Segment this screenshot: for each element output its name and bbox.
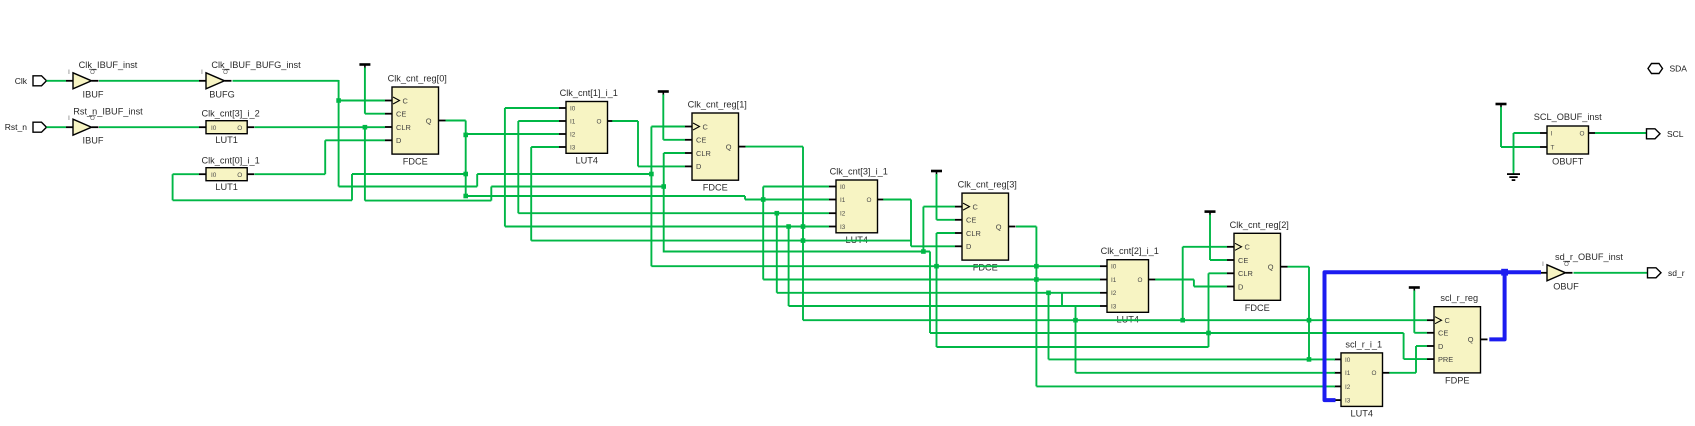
- svg-text:FDCE: FDCE: [973, 263, 998, 273]
- wire run y=306 to I3 of LUT4[2]: [789, 305, 1100, 307]
- wire Rst_n port to IBUF: [47, 126, 67, 128]
- wire Clk port to IBUF: [47, 80, 67, 82]
- node blue junction: [1501, 269, 1508, 276]
- node riser to C of reg2: [1180, 318, 1185, 323]
- svg-text:Rst_n_IBUF_inst: Rst_n_IBUF_inst: [73, 107, 143, 117]
- svg-text:C: C: [1245, 243, 1251, 252]
- buffer Clk_IBUF_BUFG_inst (BUFG): [199, 80, 206, 82]
- node Q0 to feedback run y=174: [463, 172, 468, 177]
- svg-text:sd_r_OBUF_inst: sd_r_OBUF_inst: [1555, 252, 1623, 262]
- wire run y=266.2 to I0 of LUT4[2]: [651, 265, 1100, 267]
- node clock to C of reg0: [336, 98, 341, 103]
- power vcc for scl_r_reg CE: [1409, 286, 1420, 289]
- svg-text:D: D: [1238, 282, 1243, 291]
- wire run y=333 to PRE of scl_r_reg: [930, 332, 1404, 334]
- power vcc for Clk_cnt_reg[3] CE: [931, 170, 942, 173]
- wire IBUF to BUFG: [99, 80, 199, 82]
- svg-text:FDCE: FDCE: [1245, 303, 1270, 313]
- wire run y=279.5 to I1 of LUT4[2]: [763, 279, 1100, 281]
- svg-text:SCL: SCL: [1667, 129, 1684, 139]
- svg-text:D: D: [966, 242, 971, 251]
- wire Q of reg3 to staircase: [1016, 226, 1036, 228]
- node Q0 branch y=196: [463, 194, 468, 199]
- wire feed I0 of LUT4[1]: [505, 107, 559, 109]
- svg-text:I2: I2: [840, 211, 846, 218]
- wire run y=359.4 to I0 of scl_r_i_1: [1049, 358, 1336, 360]
- svg-text:CLR: CLR: [696, 149, 711, 158]
- svg-text:Clk: Clk: [15, 76, 28, 86]
- svg-text:Q: Q: [996, 222, 1002, 231]
- svg-text:I0: I0: [1345, 357, 1351, 364]
- svg-text:I1: I1: [1345, 370, 1351, 377]
- node CLR branch: [363, 125, 368, 130]
- wire run y=226.5 to I3 of LUT4[3]: [505, 226, 829, 228]
- wire run y=386.4 to I2 of scl_r_i_1: [1036, 385, 1335, 387]
- wire clock run y=174: [477, 173, 651, 175]
- svg-text:I: I: [68, 116, 70, 122]
- power vcc for Clk_cnt_reg[2] CE: [1205, 210, 1216, 213]
- svg-text:D: D: [1438, 342, 1443, 351]
- svg-text:CE: CE: [396, 110, 406, 119]
- svg-text:O: O: [1580, 130, 1585, 137]
- svg-text:FDCE: FDCE: [403, 157, 428, 167]
- svg-text:I2: I2: [1111, 290, 1117, 297]
- wire PRE feed down x=1403.6: [1403, 333, 1405, 359]
- port Clk: [33, 76, 47, 86]
- node Q0 to I2 of LUT4[1]: [463, 133, 468, 138]
- wire Rst_n IBUF to LUT1: [99, 126, 199, 128]
- wire Q1 vertical x=803 down to y=320.2: [802, 147, 804, 321]
- svg-text:CE: CE: [1238, 256, 1248, 265]
- lut Clk_cnt[2]_i_1 (LUT4): [1107, 260, 1149, 313]
- wire OBUFT O to SCL port: [1595, 132, 1647, 134]
- svg-text:Clk_cnt[3]_i_2: Clk_cnt[3]_i_2: [201, 109, 259, 119]
- wire LUT4[1] O to D of reg1: [612, 120, 638, 122]
- svg-text:CLR: CLR: [396, 123, 411, 132]
- wire run y=186.5 right part: [491, 186, 663, 188]
- wire BUFG output to clock trunk: [233, 80, 339, 82]
- lut Clk_cnt[1]_i_1 (LUT4): [566, 102, 608, 154]
- wire branch x=1075.5 down to I1 of scl lut: [1075, 306, 1077, 373]
- svg-text:LUT4: LUT4: [576, 155, 598, 165]
- wire feed I1 of LUT4[1]: [518, 120, 559, 122]
- svg-text:I: I: [1542, 262, 1544, 268]
- wire feed I3 of LUT4[1]: [531, 146, 559, 148]
- svg-text:I0: I0: [211, 125, 217, 132]
- node riser to CLR of reg1: [661, 184, 666, 189]
- svg-text:FDPE: FDPE: [1445, 375, 1470, 385]
- svg-text:I3: I3: [570, 144, 576, 151]
- node crossing x=1075.5: [1073, 318, 1078, 323]
- wire blue net scl_r_reg Q to sd_r OBUF and feedback: [1489, 272, 1541, 339]
- flip-flop Clk_cnt_reg[0] (FDCE): [392, 87, 439, 154]
- port sd_r: [1648, 268, 1662, 278]
- flip-flop Clk_cnt_reg[1] (FDCE): [692, 113, 739, 180]
- svg-text:Clk_cnt_reg[2]: Clk_cnt_reg[2]: [1230, 220, 1289, 230]
- wire riser x=1208.5 CLR reg2: [1208, 273, 1210, 347]
- svg-text:Clk_cnt[1]_i_1: Clk_cnt[1]_i_1: [560, 88, 618, 98]
- wire run y=213.2 to I2 of LUT4[3]: [518, 212, 829, 214]
- svg-text:I0: I0: [570, 105, 576, 112]
- svg-text:T: T: [1551, 144, 1555, 151]
- svg-text:I0: I0: [211, 172, 217, 179]
- svg-text:CE: CE: [1438, 329, 1448, 338]
- wire Q3 vertical x=1036.4: [1035, 227, 1037, 387]
- wire OBUFT I pin to ground: [1514, 132, 1541, 134]
- svg-text:I3: I3: [1111, 303, 1117, 310]
- ground symbol: [1513, 172, 1515, 174]
- wire Q0 feedback to I0 of LUT1 Clk_cnt[0]_i_1: [172, 174, 174, 200]
- svg-text:C: C: [403, 96, 409, 105]
- svg-text:I3: I3: [840, 224, 846, 231]
- svg-text:scl_r_reg: scl_r_reg: [1440, 293, 1478, 303]
- svg-text:CLR: CLR: [966, 229, 981, 238]
- node Q3 on run 266.2: [1034, 264, 1039, 269]
- wire drop x=930 to y=333: [929, 252, 931, 334]
- node branch CLR of reg2: [1206, 331, 1211, 336]
- svg-text:Clk_cnt_reg[0]: Clk_cnt_reg[0]: [388, 74, 447, 84]
- svg-text:CE: CE: [696, 136, 706, 145]
- wire run y=320.2 to C of scl_r_reg: [803, 319, 1427, 321]
- wire CLR jog up x=491.3: [490, 187, 492, 201]
- wire Q of reg1 output to staircase: [745, 146, 803, 148]
- lut scl_r_i_1 (LUT4): [1341, 353, 1383, 407]
- svg-text:I: I: [201, 70, 203, 76]
- node Q3 on run 279.5: [1034, 277, 1039, 282]
- node CLR reg3 riser: [934, 264, 939, 269]
- buffer sd_r_OBUF_inst (OBUF): [1540, 272, 1547, 274]
- flip-flop Clk_cnt_reg[3] (FDCE): [962, 193, 1009, 260]
- svg-text:OBUF: OBUF: [1553, 281, 1579, 291]
- svg-text:PRE: PRE: [1438, 355, 1453, 364]
- svg-text:IBUF: IBUF: [83, 136, 104, 146]
- svg-text:BUFG: BUFG: [209, 89, 235, 99]
- node branch x=788.6: [786, 224, 791, 229]
- svg-text:C: C: [973, 202, 979, 211]
- svg-text:FDCE: FDCE: [703, 183, 728, 193]
- svg-text:Clk_cnt_reg[3]: Clk_cnt_reg[3]: [958, 180, 1017, 190]
- wire OBUF to sd_r port: [1574, 272, 1648, 274]
- wire scl_r_i_1 O to D of scl_r_reg: [1389, 372, 1416, 374]
- wire run y=347: [937, 346, 1209, 348]
- svg-text:I3: I3: [1345, 398, 1351, 405]
- port SDA (unconnected inout): [1648, 64, 1663, 74]
- svg-text:scl_r_i_1: scl_r_i_1: [1345, 339, 1382, 349]
- svg-text:Q: Q: [1468, 335, 1474, 344]
- svg-text:I: I: [1551, 130, 1553, 137]
- wire CLR net from LUT1 Clk_cnt[3]_i_2 to CLR of reg0: [255, 126, 386, 128]
- svg-text:LUT1: LUT1: [215, 135, 237, 145]
- svg-text:C: C: [703, 122, 709, 131]
- wire CLR vertical x=364.9: [364, 127, 366, 200]
- wire Q of reg0 output: [446, 120, 466, 122]
- svg-text:Q: Q: [426, 116, 432, 125]
- wire LUT4[3] O to D of reg3: [883, 199, 911, 201]
- svg-text:O: O: [867, 197, 872, 204]
- svg-text:SDA: SDA: [1670, 64, 1688, 74]
- svg-text:D: D: [396, 136, 401, 145]
- svg-text:O: O: [1564, 262, 1569, 268]
- wire clock run y=186.5 left part: [339, 186, 478, 188]
- svg-text:O: O: [223, 70, 228, 76]
- buffer SCL_OBUF_inst (OBUFT): [1540, 132, 1547, 134]
- svg-text:I0: I0: [1111, 264, 1117, 271]
- svg-text:Clk_cnt_reg[1]: Clk_cnt_reg[1]: [688, 100, 747, 110]
- svg-text:C: C: [1445, 316, 1451, 325]
- svg-text:I1: I1: [1111, 277, 1117, 284]
- wire run y=292.8 to I2 of LUT4[2]: [777, 292, 1100, 294]
- port SCL: [1647, 129, 1661, 139]
- lut Clk_cnt[3]_i_1 (LUT4): [836, 180, 878, 233]
- wire jog x=1062: [1061, 293, 1063, 306]
- node crossing x=803 y=240.6: [801, 238, 806, 243]
- svg-text:IBUF: IBUF: [83, 89, 104, 99]
- svg-text:Clk_cnt[3]_i_1: Clk_cnt[3]_i_1: [830, 167, 888, 177]
- svg-text:CLR: CLR: [1238, 269, 1253, 278]
- power vcc for Clk_cnt_reg[0] CE: [359, 63, 370, 66]
- node branch x=803: [801, 224, 806, 229]
- svg-text:D: D: [696, 162, 701, 171]
- flip-flop scl_r_reg (FDPE): [1434, 307, 1481, 373]
- svg-text:Clk_cnt[2]_i_1: Clk_cnt[2]_i_1: [1101, 246, 1159, 256]
- node branch x=1048.5 on run 292.8 down to I0 of scl lut: [1046, 291, 1051, 296]
- port Rst_n: [33, 122, 47, 132]
- svg-text:Q: Q: [1268, 263, 1274, 272]
- svg-text:O: O: [237, 172, 242, 179]
- svg-text:LUT1: LUT1: [215, 182, 237, 192]
- svg-text:O: O: [90, 70, 95, 76]
- power vcc for OBUFT T pin: [1496, 103, 1507, 106]
- wire I0 feed of LUT4[3] from x=763.2: [762, 187, 764, 200]
- wire clock trunk vertical x=338.6: [338, 80, 340, 187]
- power vcc for Clk_cnt_reg[1] CE: [658, 90, 669, 93]
- node riser to C of reg3: [921, 249, 926, 254]
- svg-text:OBUFT: OBUFT: [1552, 157, 1584, 167]
- lut Clk_cnt[0]_i_1 (LUT1): [199, 173, 206, 175]
- svg-text:I2: I2: [570, 131, 576, 138]
- wire Q2 vertical x=1309: [1308, 267, 1310, 360]
- wire run y=240.6 to D riser of reg3: [531, 240, 911, 242]
- wire run y=372.8 to I1 of scl_r_i_1: [1076, 372, 1336, 374]
- svg-text:O: O: [237, 125, 242, 132]
- wire run y=251.5: [664, 251, 930, 253]
- wire CLR run y=200.6: [365, 200, 491, 202]
- svg-text:O: O: [1138, 277, 1143, 284]
- svg-text:LUT4: LUT4: [1351, 408, 1373, 418]
- svg-text:CE: CE: [966, 216, 976, 225]
- wire LUT4[2] O to D of reg2: [1155, 279, 1194, 281]
- wire CLR reg3 channel down: [936, 266, 938, 347]
- svg-text:I: I: [68, 70, 70, 76]
- svg-text:O: O: [597, 118, 602, 125]
- svg-text:O: O: [1372, 370, 1377, 377]
- node Q2 on clock run: [1307, 318, 1312, 323]
- svg-text:Q: Q: [726, 142, 732, 151]
- node Q2 on run 359.4: [1307, 357, 1312, 362]
- flip-flop Clk_cnt_reg[2] (FDCE): [1234, 233, 1281, 300]
- svg-text:I1: I1: [570, 118, 576, 125]
- buffer Rst_n_IBUF_inst (IBUF): [66, 126, 73, 128]
- svg-text:Clk_cnt[0]_i_1: Clk_cnt[0]_i_1: [201, 156, 259, 166]
- lut Clk_cnt[3]_i_2 (LUT1): [199, 126, 206, 128]
- svg-text:I1: I1: [840, 197, 846, 204]
- svg-text:Clk_IBUF_BUFG_inst: Clk_IBUF_BUFG_inst: [211, 60, 301, 70]
- svg-text:Clk_IBUF_inst: Clk_IBUF_inst: [79, 60, 138, 70]
- wire clock jog up x=477.2: [476, 174, 478, 187]
- svg-text:Rst_n: Rst_n: [5, 122, 27, 132]
- svg-text:SCL_OBUF_inst: SCL_OBUF_inst: [1534, 112, 1602, 122]
- node branch x=776.8: [775, 211, 780, 216]
- wire Q0 run y=196 to LUT4[3] I1: [466, 195, 745, 197]
- node branch down x=763.2: [761, 197, 766, 202]
- node clock riser to C of reg1: [649, 172, 654, 177]
- svg-text:O: O: [90, 116, 95, 122]
- svg-text:I0: I0: [840, 184, 846, 191]
- wire LUT1 Clk_cnt[0]_i_1 output to D of reg0: [255, 173, 326, 175]
- buffer Clk_IBUF_inst (IBUF U1): [66, 80, 73, 82]
- wire Q of reg2 to staircase: [1288, 266, 1310, 268]
- svg-text:sd_r: sd_r: [1668, 268, 1685, 278]
- svg-text:I2: I2: [1345, 384, 1351, 391]
- wire Q0 feedback jog x=352: [351, 174, 353, 200]
- wire Q0 vertical descent x=465.7: [465, 121, 467, 196]
